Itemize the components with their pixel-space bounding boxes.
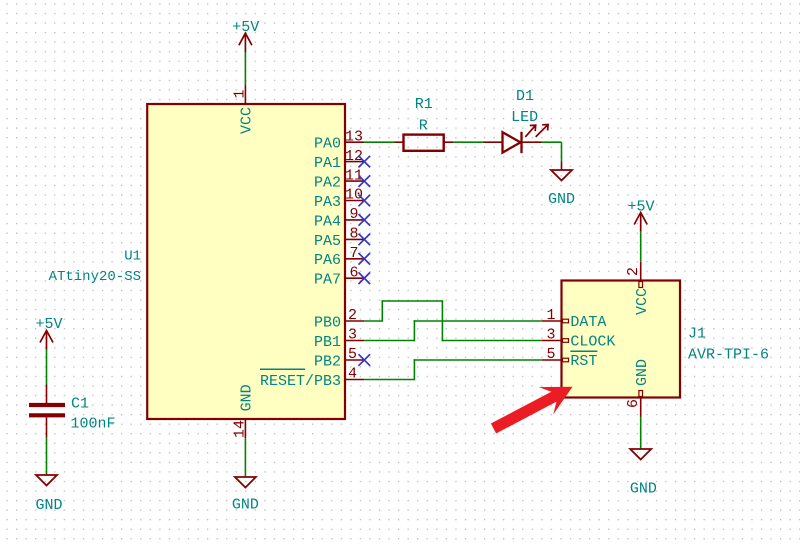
U1 pin 7 (PA6) xyxy=(314,245,364,269)
resistor R1 xyxy=(395,135,454,151)
GND net label (C1) xyxy=(35,497,62,514)
svg-text:PA6: PA6 xyxy=(314,252,341,269)
svg-text:+5V: +5V xyxy=(627,198,654,215)
U1 pin 5 (PB2) xyxy=(314,346,364,370)
svg-text:R: R xyxy=(419,118,428,135)
ground symbol (D1) xyxy=(551,170,572,181)
svg-text:GND: GND xyxy=(634,359,651,386)
J1 value label AVR-TPI-6 xyxy=(688,346,769,363)
svg-text:ATtiny20-SS: ATtiny20-SS xyxy=(49,269,141,285)
svg-text:+5V: +5V xyxy=(232,19,259,36)
svg-text:PB1: PB1 xyxy=(314,334,341,351)
svg-text:GND: GND xyxy=(232,497,259,514)
wire J1 pin 6 to GND xyxy=(640,417,642,450)
J1 pin 2 (VCC, top) xyxy=(625,262,651,315)
svg-text:R1: R1 xyxy=(415,96,433,113)
+5V net label (U1) xyxy=(232,19,259,36)
D1 value label LED xyxy=(511,109,538,126)
U1 pin 11 (PA2) xyxy=(314,167,364,191)
U1 pin 1 (VCC, top) xyxy=(232,85,256,134)
IC U1 body xyxy=(147,104,345,419)
svg-text:14: 14 xyxy=(232,420,249,438)
U1 pin 14 (GND, bottom) xyxy=(232,384,256,438)
svg-text:1: 1 xyxy=(546,307,555,324)
J1 pin 5 (RST) with overline xyxy=(542,346,598,370)
U1 pin 9 (PA4) xyxy=(314,206,364,230)
U1 pin 2 (PB0) xyxy=(314,307,364,331)
ground symbol (U1) xyxy=(235,477,256,488)
svg-text:PB2: PB2 xyxy=(314,353,341,370)
no-connect X on PA6 pin 7 xyxy=(359,253,371,265)
svg-text:PA1: PA1 xyxy=(314,155,341,172)
wire PB1 to J1 DATA (jog up) xyxy=(364,320,542,341)
GND net label (U1) xyxy=(232,497,259,514)
svg-text:4: 4 xyxy=(348,366,357,383)
J1 pin 3 (CLOCK) xyxy=(542,327,616,351)
no-connect X on PA3 pin 10 xyxy=(359,195,371,207)
svg-text:2: 2 xyxy=(348,307,357,324)
U1 pin 3 (PB1) xyxy=(314,327,364,351)
+5V power symbol (J1) xyxy=(634,213,647,232)
J1 reference label xyxy=(688,326,706,343)
svg-text:PA5: PA5 xyxy=(314,233,341,250)
C1 reference label xyxy=(71,396,89,413)
svg-text:7: 7 xyxy=(349,245,358,262)
svg-text:PA4: PA4 xyxy=(314,213,341,230)
svg-text:12: 12 xyxy=(345,148,363,165)
svg-text:RST: RST xyxy=(570,353,597,370)
svg-text:GND: GND xyxy=(35,497,62,514)
wire +5V to C1 xyxy=(46,349,48,385)
wire D1 cathode to GND corner xyxy=(542,142,562,161)
ground symbol (C1) xyxy=(36,475,57,486)
no-connect X on PB2 pin 5 xyxy=(359,354,371,366)
svg-text:PA3: PA3 xyxy=(314,194,341,211)
svg-text:6: 6 xyxy=(625,399,642,408)
svg-text:RESET/PB3: RESET/PB3 xyxy=(260,373,341,390)
svg-text:LED: LED xyxy=(511,109,538,126)
U1 pin 4 (RESET/PB3) with overline on RESET xyxy=(260,366,364,390)
svg-text:U1: U1 xyxy=(124,248,141,264)
svg-text:D1: D1 xyxy=(516,88,534,105)
svg-text:5: 5 xyxy=(348,346,357,363)
svg-text:VCC: VCC xyxy=(239,107,256,134)
U1 value label ATtiny20-SS xyxy=(49,269,141,285)
wire C1 to GND xyxy=(46,437,48,475)
svg-text:100nF: 100nF xyxy=(71,416,116,433)
svg-text:10: 10 xyxy=(345,187,363,204)
R1 value label R xyxy=(419,118,428,135)
wire +5V to J1 pin 2 xyxy=(640,231,642,262)
svg-text:GND: GND xyxy=(548,191,575,208)
no-connect X on PA4 pin 9 xyxy=(359,214,371,226)
svg-text:VCC: VCC xyxy=(634,288,651,315)
GND net label (D1) xyxy=(548,191,575,208)
U1 pin 12 (PA1) xyxy=(314,148,364,172)
no-connect X on PA7 pin 6 xyxy=(359,272,371,284)
pin stub at D1 GND xyxy=(561,162,563,171)
wire PB3 to J1 RST (jog up) xyxy=(364,359,542,380)
svg-text:GND: GND xyxy=(239,384,256,411)
U1 pin 6 (PA7) xyxy=(314,264,364,288)
svg-text:PA7: PA7 xyxy=(314,272,341,289)
svg-text:PA0: PA0 xyxy=(314,136,341,153)
svg-text:CLOCK: CLOCK xyxy=(570,334,615,351)
wire +5V to U1 pin 1 xyxy=(244,52,246,85)
svg-text:AVR-TPI-6: AVR-TPI-6 xyxy=(688,346,769,363)
svg-text:9: 9 xyxy=(349,206,358,223)
connector J1 body xyxy=(562,281,681,398)
+5V power symbol (C1) xyxy=(40,331,53,350)
C1 value label 100nF xyxy=(71,416,116,433)
U1 pin 10 (PA3) xyxy=(314,187,364,211)
+5V power symbol (U1 VCC) xyxy=(239,33,252,52)
svg-text:5: 5 xyxy=(546,346,555,363)
svg-text:3: 3 xyxy=(348,327,357,344)
no-connect X on PA5 pin 8 xyxy=(359,234,371,246)
U1 pin 13 (PA0) xyxy=(314,128,364,152)
+5V net label (C1) xyxy=(35,316,62,333)
svg-text:1: 1 xyxy=(232,89,249,98)
capacitor C1 xyxy=(29,385,65,438)
R1 reference label xyxy=(415,96,433,113)
svg-text:+5V: +5V xyxy=(35,316,62,333)
no-connect X on PA2 pin 11 xyxy=(359,175,371,187)
svg-text:8: 8 xyxy=(349,226,358,243)
U1 pin 8 (PA5) xyxy=(314,226,364,250)
svg-text:J1: J1 xyxy=(688,326,706,343)
wire U1 pin 14 to GND xyxy=(244,438,246,477)
svg-text:2: 2 xyxy=(625,267,642,276)
GND net label (J1) xyxy=(630,481,657,498)
wire R1 to D1 xyxy=(453,141,484,143)
svg-text:11: 11 xyxy=(345,167,363,184)
svg-text:DATA: DATA xyxy=(570,314,606,331)
svg-text:C1: C1 xyxy=(71,396,89,413)
svg-text:13: 13 xyxy=(345,128,363,145)
ground symbol (J1) xyxy=(630,449,651,460)
wire PB0 to J1 CLOCK (jog up) xyxy=(364,300,542,341)
red annotation arrow pointing at J1 RST pin xyxy=(491,387,573,434)
U1 reference label xyxy=(124,248,141,264)
svg-text:3: 3 xyxy=(546,327,555,344)
svg-text:GND: GND xyxy=(630,481,657,498)
no-connect X on PA1 pin 12 xyxy=(359,156,371,168)
svg-text:6: 6 xyxy=(349,264,358,281)
J1 pin 6 (GND, bottom) xyxy=(625,359,651,417)
D1 reference label xyxy=(516,88,534,105)
wire PA0 to R1 xyxy=(364,141,394,143)
+5V net label (J1) xyxy=(627,198,654,215)
svg-text:PB0: PB0 xyxy=(314,314,341,331)
J1 pin 1 (DATA) xyxy=(542,307,607,331)
svg-text:PA2: PA2 xyxy=(314,175,341,192)
LED D1 xyxy=(484,125,549,154)
